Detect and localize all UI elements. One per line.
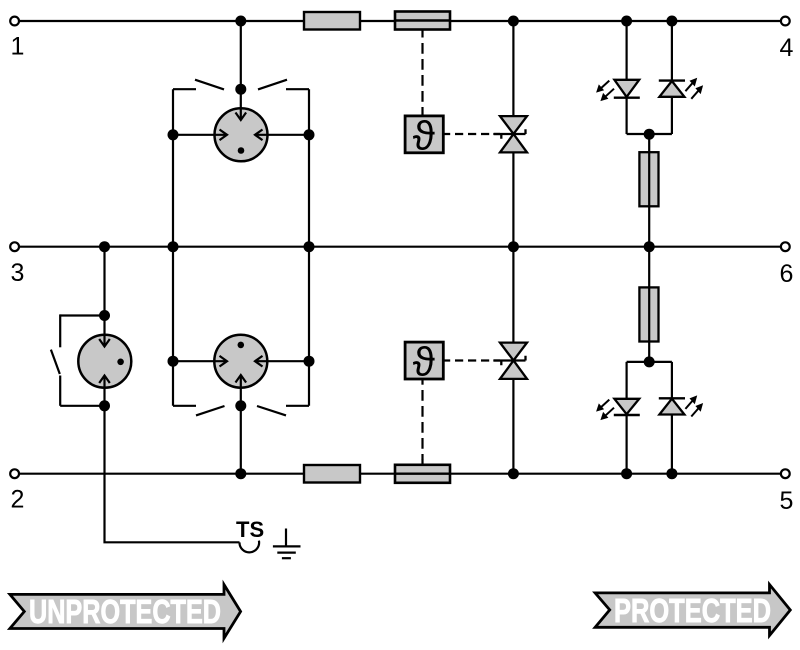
wire LED pair top join <box>627 133 672 135</box>
LED D4 (bottom right, anode up) <box>659 395 703 416</box>
wire right bracket vertical (x=309) <box>308 89 310 406</box>
junction GDT2 bottom <box>99 400 110 411</box>
dashed link TH1 to TVS1 <box>442 133 500 135</box>
svg-text:1: 1 <box>11 33 25 61</box>
resistor R1 (top line) <box>304 12 360 30</box>
wire TVS column (top line to bottom line) <box>512 21 514 474</box>
junction GDT3 left electrode <box>168 356 179 367</box>
svg-text:6: 6 <box>780 260 794 288</box>
terminal 4 <box>780 17 794 62</box>
junction LED pair top join <box>644 129 655 140</box>
junction middle line / TVS column <box>508 241 519 252</box>
svg-text:UNPROTECTED: UNPROTECTED <box>29 593 221 630</box>
wire middle line to R3 to LED join bottom <box>648 247 650 362</box>
terminal 1 <box>10 17 24 61</box>
disconnect switch of GDT2 <box>51 314 105 405</box>
disconnect switch of GDT1 <box>173 80 309 95</box>
wire bottom line (terminal 2 to terminal 5) <box>19 473 781 475</box>
LED D2 (top right, anode up) <box>659 78 703 99</box>
wire middle line (terminal 3 to terminal 6) <box>19 246 781 248</box>
wire GDT3 to bottom line <box>240 406 242 474</box>
wire LED pair top (right branch) <box>671 21 673 134</box>
terminal 2 <box>10 469 24 513</box>
svg-text:TS: TS <box>236 517 264 542</box>
ground <box>273 529 301 559</box>
arrow UNPROTECTED <box>10 585 241 639</box>
svg-text:ϑ: ϑ <box>413 112 435 158</box>
junction top line / LED left <box>621 16 632 27</box>
svg-text:ϑ: ϑ <box>413 339 435 385</box>
wire LED pair bottom (right branch) <box>671 362 673 474</box>
junction bottom line / GDT3 <box>235 468 246 479</box>
svg-text:2: 2 <box>11 486 25 514</box>
resistor R2 (right column top) <box>639 152 658 206</box>
junction top line / GDT1 <box>235 16 246 27</box>
dashed link TH2 to fuse F2 <box>421 379 423 466</box>
junction top line / TVS column <box>508 16 519 27</box>
wire middle line to GDT2 <box>103 247 105 316</box>
gas discharge tube GDT3 (bottom, three-electrode) <box>173 335 309 406</box>
fuse F1 (top line) <box>395 12 450 30</box>
junction LED pair bottom join <box>644 356 655 367</box>
svg-text:3: 3 <box>11 259 25 287</box>
junction middle line x=309 <box>304 241 315 252</box>
wire LED join to R2 to middle line <box>648 134 650 247</box>
TS disconnect hook <box>239 541 259 553</box>
gas discharge tube GDT1 (top, three-electrode) <box>173 89 309 161</box>
junction bottom line / LED right <box>666 468 677 479</box>
suppressor diode TVS2 (bottom) <box>493 343 527 379</box>
LED D1 (top left, cathode down) <box>596 80 640 101</box>
dashed link fuse F1 to TH1 <box>421 30 423 115</box>
terminal 6 <box>780 242 794 288</box>
fuse F2 (bottom line) <box>395 465 450 483</box>
junction GDT1 right electrode <box>304 129 315 140</box>
wire top line (terminal 1 to terminal 4) <box>19 20 781 22</box>
junction middle line / right column <box>644 241 655 252</box>
wire left bracket vertical (x=173) <box>172 89 174 406</box>
LED D3 (bottom left, cathode down) <box>596 399 640 420</box>
thermal disconnect TH2 (bottom) <box>405 339 443 385</box>
resistor R4 (bottom line) <box>304 465 360 483</box>
junction bottom line / LED left <box>621 468 632 479</box>
resistor R3 (right column bottom) <box>639 287 658 341</box>
arrow PROTECTED <box>595 585 790 636</box>
wire GDT1 feed (top line down to spark gap) <box>240 21 242 89</box>
svg-text:5: 5 <box>780 487 794 515</box>
terminal 3 <box>10 242 24 287</box>
disconnect switch of GDT3 <box>173 400 309 415</box>
svg-text:PROTECTED: PROTECTED <box>614 592 771 629</box>
junction middle line x=104.5 <box>99 241 110 252</box>
dashed link TH2 to TVS2 <box>442 359 500 361</box>
wire LED pair top (left branch) <box>625 21 627 134</box>
junction GDT1 left electrode <box>168 129 179 140</box>
gas discharge tube GDT2 (left, two-electrode) <box>78 316 131 406</box>
wire LED pair bottom (left branch) <box>625 362 627 474</box>
junction GDT3 right electrode <box>304 356 315 367</box>
junction bottom line / TVS column <box>508 468 519 479</box>
junction top line / LED right <box>666 16 677 27</box>
junction GDT2 top <box>99 310 110 321</box>
svg-text:4: 4 <box>780 34 794 62</box>
junction middle line x=173 <box>168 241 179 252</box>
terminal 5 <box>780 469 794 515</box>
wire GDT2 to TS disconnect <box>105 406 240 543</box>
wire LED pair bottom join <box>627 361 672 363</box>
suppressor diode TVS1 (top) <box>493 116 527 152</box>
thermal disconnect TH1 (top) <box>405 112 443 158</box>
